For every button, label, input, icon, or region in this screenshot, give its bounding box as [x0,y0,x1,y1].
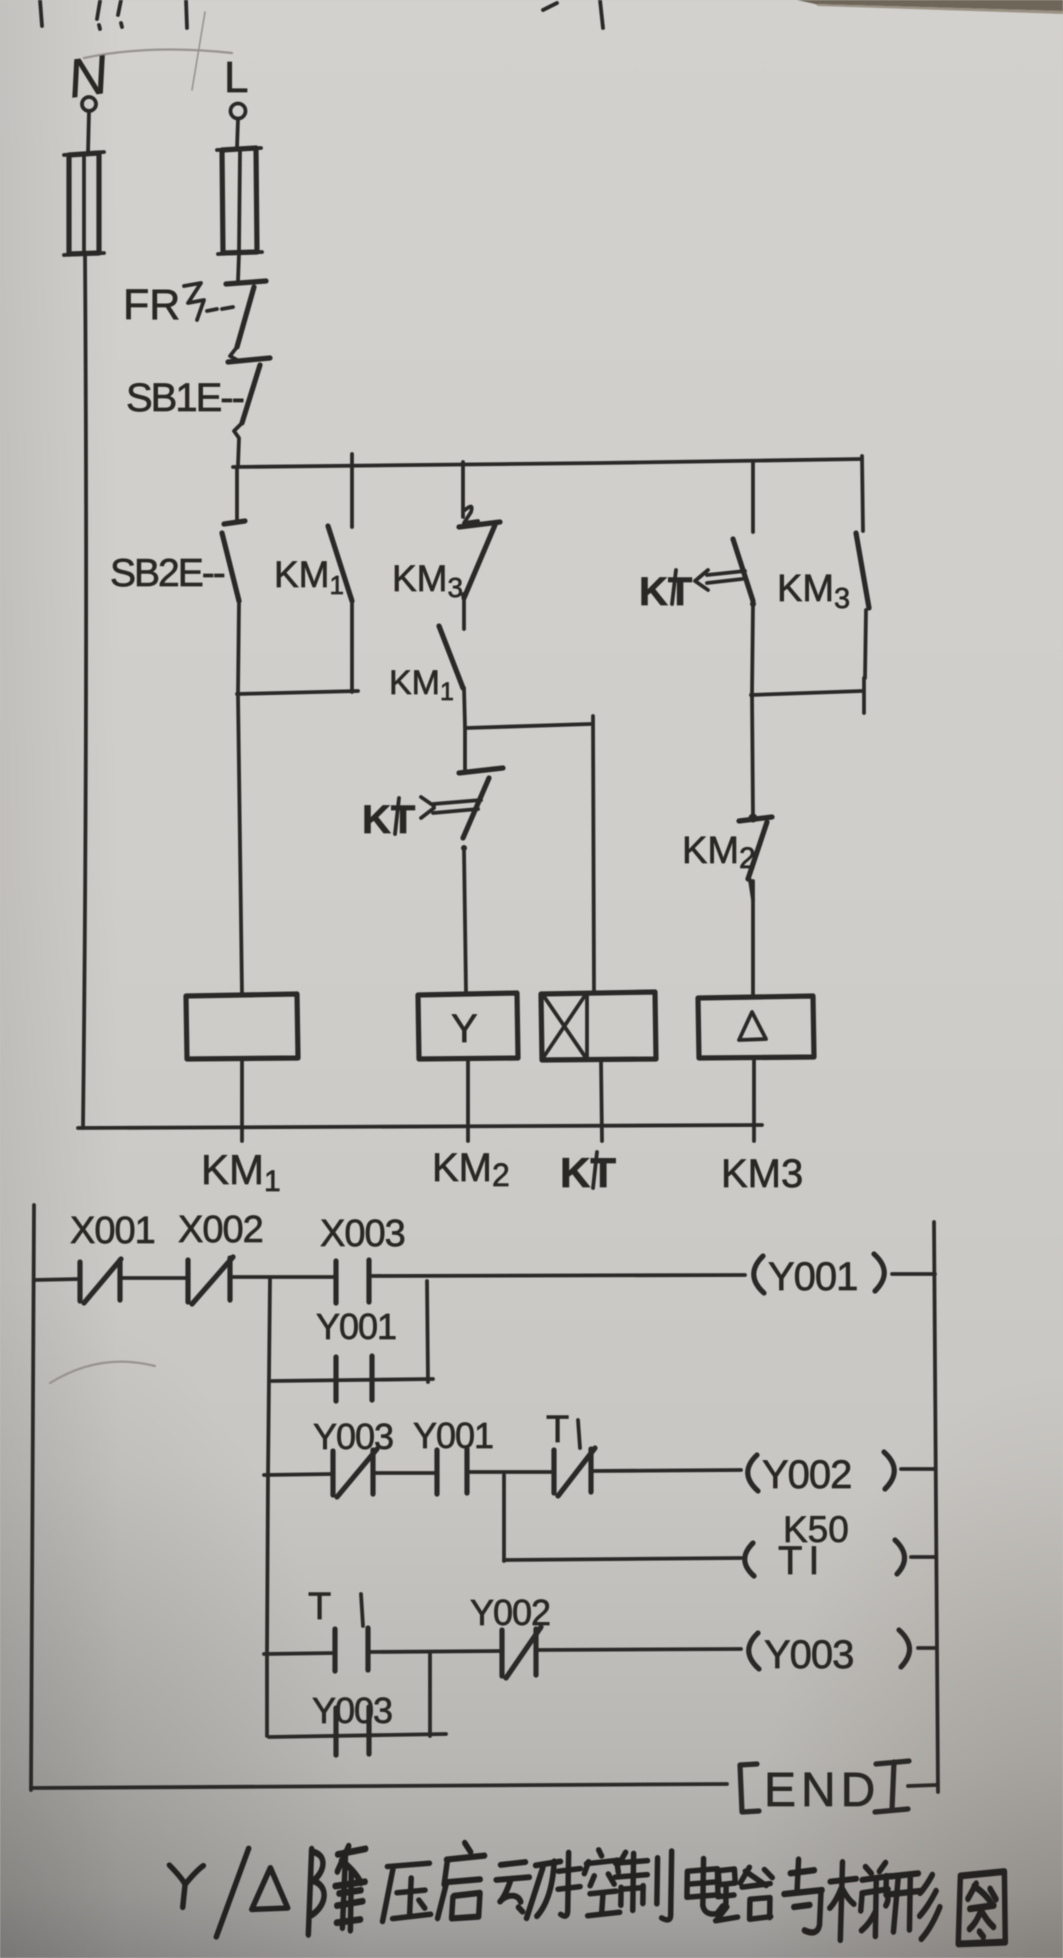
svg-text:X001: X001 [70,1210,155,1252]
svg-text:TI: TI [778,1539,826,1583]
parallel branch Y003 contact [269,1690,446,1755]
wire KM2 contact to coil KM3 [751,881,755,996]
coil KM2 Y [413,993,518,1059]
svg-text:T: T [546,1409,569,1451]
coil KM1 [186,994,298,1059]
svg-text:Y: Y [451,1007,478,1051]
contact KM3 NC middle branch [392,462,500,629]
coil KT bottom lead [601,1060,602,1141]
contact T1 NC rung2 [546,1409,595,1496]
rung3 junction vertical [428,1652,432,1736]
rung feeder vertical [267,1279,270,1736]
rung 2 wire [264,1469,934,1475]
branch wire to timer coil [504,1475,741,1561]
svg-text:KT: KT [362,798,415,842]
contact Y002 NC rung3 [470,1592,550,1678]
svg-text:Y002: Y002 [762,1453,851,1497]
coil KM3 bottom lead [752,1058,756,1141]
terminal L [224,53,248,119]
contact KM2 NC [682,694,772,900]
coil KM3 delta [698,996,814,1058]
wire FR to SB1 [230,347,239,361]
thermal relay contact FR [123,281,266,347]
coil KT [541,992,656,1060]
wire L terminal to fuse [237,119,238,148]
contact KM3 NO top right [777,456,869,713]
rung 1 wire [34,1274,935,1280]
svg-text:L: L [224,53,248,102]
svg-text:KT: KT [639,570,692,614]
contact T1 NO rung3 [308,1586,368,1671]
svg-text:FR: FR [123,281,180,329]
wire N terminal to fuse [88,111,89,154]
coil KM1 bottom lead [240,1059,244,1141]
ladder left rail [31,1205,34,1790]
fuse FU1 [64,152,104,255]
coil Y002 [748,1452,895,1497]
contact KT NO delayed top right [639,461,756,694]
svg-text:Y001: Y001 [413,1415,493,1456]
svg-text:SB2E--: SB2E-- [110,552,225,595]
contact X003 NO [320,1213,405,1303]
svg-text:X003: X003 [320,1213,405,1255]
rung 3 wire [264,1648,936,1654]
terminal N [64,44,112,111]
svg-text:KM3: KM3 [721,1152,803,1196]
END instruction [740,1761,936,1817]
bottom bus [78,1125,762,1128]
control bus top rail [233,459,862,467]
parallel join wire [751,691,862,695]
contact X002 NC [178,1209,263,1304]
contact KM1 NO middle [389,626,465,727]
caption Y/delta step-down starting control circuit and ladder diagram [168,1838,1006,1949]
svg-text:KT: KT [560,1149,616,1196]
svg-text:Y003: Y003 [764,1633,853,1677]
svg-text:X002: X002 [178,1209,263,1251]
seal branch bottom wire [237,691,358,694]
seal contact KM1 [274,454,352,692]
timer coil T1 K50 [745,1509,935,1583]
ladder right rail [934,1222,938,1792]
coil KM2 bottom lead [466,1059,470,1141]
start button SB2 [110,467,245,601]
contact X001 NC [70,1210,155,1303]
svg-text:Y001: Y001 [316,1306,396,1347]
wire SB2 to KM1 coil [238,601,242,995]
wire SB1 to control bus [234,423,242,466]
coil Y001 [754,1254,885,1299]
contact Y001 NO rung2 [413,1415,493,1494]
wire fuse FU2 to FR [238,253,239,281]
junction node and branch wire to KT coil [466,716,594,992]
contact KT NC delayed [362,727,503,992]
svg-text:T: T [308,1586,331,1628]
svg-text:Y001: Y001 [768,1255,857,1299]
wire left rail N [83,254,86,1128]
designator label KT [560,1149,616,1196]
seal branch wire [272,1281,433,1382]
svg-text:Y003: Y003 [312,1690,392,1731]
fuse FU2 [217,148,262,254]
END rung wire [31,1784,727,1788]
svg-text:SB1E--: SB1E-- [126,376,244,420]
coil Y003 [749,1630,910,1677]
stop button SB1 [126,358,270,423]
stray pen marks top edge [40,0,603,29]
table edge top-right [797,0,1063,14]
stray pencil curve [50,1362,155,1383]
contact Y003 NC rung2 [313,1416,393,1497]
svg-text:END: END [764,1764,880,1817]
svg-text:Y003: Y003 [313,1416,393,1457]
stray faint marks [84,12,232,90]
contact Y001 seal [316,1306,396,1401]
